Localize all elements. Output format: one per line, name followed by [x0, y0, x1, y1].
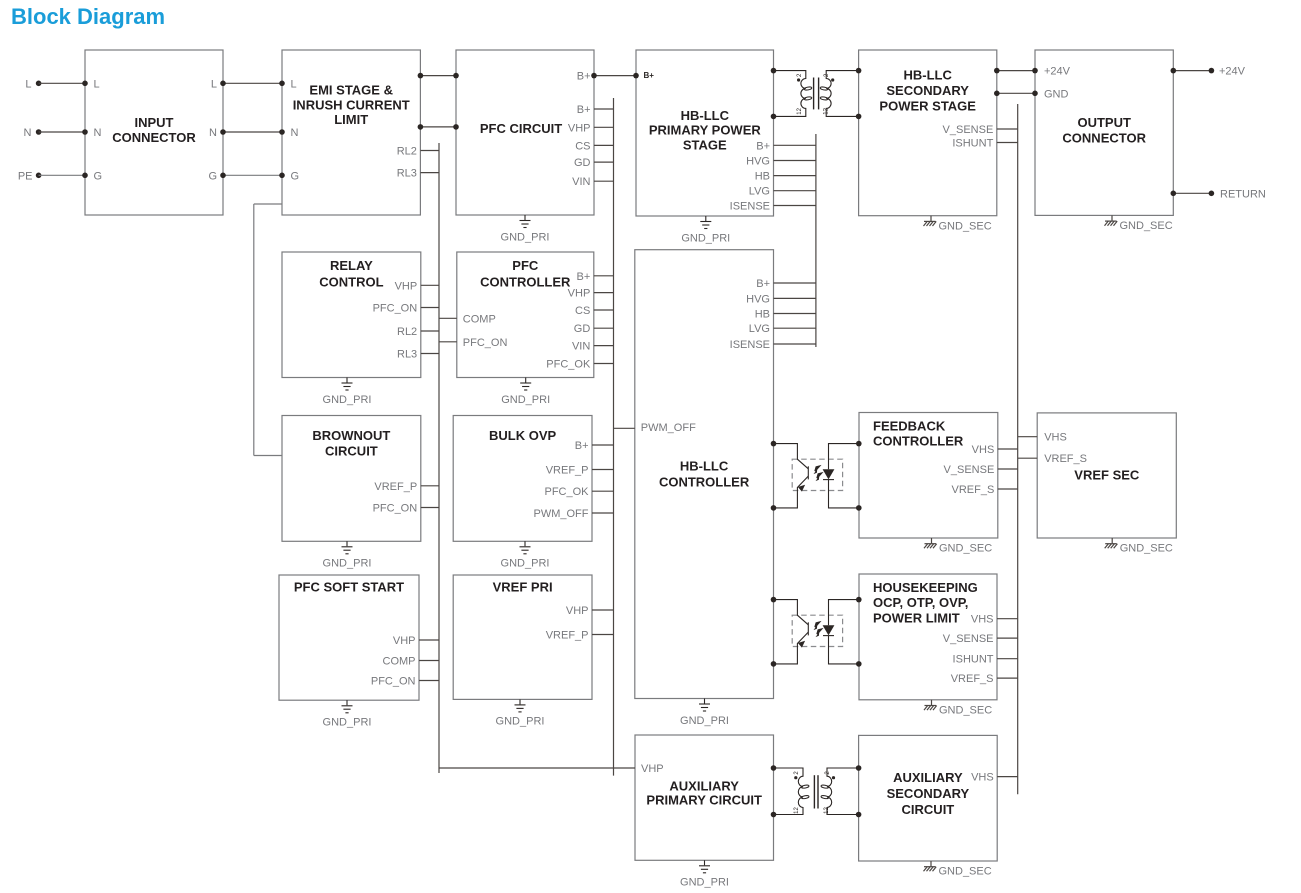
- block BULK OVP: [453, 416, 592, 542]
- svg-text:SECONDARY: SECONDARY: [887, 786, 970, 801]
- wire stub VHP (PFC SOFT START): [419, 639, 439, 641]
- svg-text:GND: GND: [1044, 88, 1069, 100]
- svg-text:GND_PRI: GND_PRI: [681, 232, 730, 244]
- wire stub VIN (PFC CONTROLLER): [594, 345, 614, 347]
- svg-text:GND_PRI: GND_PRI: [323, 717, 372, 729]
- svg-text:PFC_ON: PFC_ON: [373, 303, 418, 315]
- block BROWNOUT CIRCUIT: [282, 416, 421, 542]
- svg-text:GND_SEC: GND_SEC: [1120, 220, 1173, 232]
- svg-text:CONNECTOR: CONNECTOR: [1062, 130, 1146, 145]
- ground GND_PRI (BROWNOUT CIRCUIT): [323, 541, 372, 569]
- svg-text:VREF SEC: VREF SEC: [1074, 467, 1140, 482]
- wire stub PFC_ON (PFC SOFT START): [419, 680, 439, 682]
- svg-text:VHP: VHP: [566, 605, 589, 617]
- terminal +24V: [1171, 66, 1246, 78]
- svg-text:GND_PRI: GND_PRI: [323, 394, 372, 406]
- svg-text:CONTROL: CONTROL: [319, 275, 383, 290]
- wire L: INPUT to EMI: [82, 81, 285, 87]
- svg-text:RL2: RL2: [397, 326, 417, 338]
- wire stub COMP (PFC SOFT START): [419, 660, 439, 662]
- wire stub PFC_ON (BROWNOUT): [421, 507, 439, 509]
- svg-text:BULK OVP: BULK OVP: [489, 428, 557, 443]
- wire stub COMP (PFC CONTROLLER): [439, 317, 457, 319]
- svg-text:B+: B+: [575, 440, 589, 452]
- svg-text:COMP: COMP: [463, 313, 496, 325]
- svg-text:B+: B+: [577, 271, 591, 283]
- svg-text:GND_PRI: GND_PRI: [501, 558, 550, 570]
- wire stub ISHUNT (HOUSEKEEPING): [997, 658, 1018, 660]
- wire stub PWM_OFF (BULK OVP): [592, 512, 614, 514]
- svg-text:CONTROLLER: CONTROLLER: [873, 434, 964, 449]
- svg-text:PWM_OFF: PWM_OFF: [534, 508, 589, 520]
- svg-text:GND_SEC: GND_SEC: [939, 704, 992, 716]
- ground GND_SEC (OUTPUT CONNECTOR): [1105, 215, 1173, 232]
- svg-text:V_SENSE: V_SENSE: [943, 633, 994, 645]
- svg-text:ISENSE: ISENSE: [730, 201, 770, 213]
- transformer T1 (HB-LLC): [771, 68, 862, 119]
- ground GND_SEC (AUXILIARY SECONDARY CIRCUIT): [924, 861, 992, 878]
- svg-text:VIN: VIN: [572, 341, 590, 353]
- wire stub B+ (PFC CONTROLLER): [594, 275, 614, 277]
- svg-text:GND_SEC: GND_SEC: [1120, 543, 1173, 555]
- svg-text:HB: HB: [755, 309, 770, 321]
- svg-text:L: L: [211, 78, 217, 90]
- terminal RETURN: [1171, 188, 1266, 200]
- svg-text:PFC_OK: PFC_OK: [544, 486, 589, 498]
- ground GND_SEC (HOUSEKEEPING): [924, 700, 992, 717]
- svg-text:VREF_S: VREF_S: [952, 484, 995, 496]
- block EMI STAGE & INRUSH CURRENT LIMIT: [282, 50, 420, 215]
- block INPUT CONNECTOR: [85, 50, 223, 215]
- svg-text:CONTROLLER: CONTROLLER: [480, 275, 571, 290]
- wire stub CS (PFC CONTROLLER): [594, 309, 614, 311]
- svg-text:PRIMARY POWER: PRIMARY POWER: [649, 123, 762, 138]
- wire stub VREF_P (VREF PRI): [592, 634, 614, 636]
- wire stub RL2 (RELAY CONTROL): [421, 330, 439, 332]
- svg-text:PFC_ON: PFC_ON: [373, 503, 418, 515]
- ground GND_PRI (RELAY CONTROL): [323, 378, 372, 406]
- svg-text:POWER STAGE: POWER STAGE: [879, 99, 976, 114]
- terminal PE: [18, 170, 85, 182]
- svg-text:HB-LLC: HB-LLC: [681, 108, 730, 123]
- wire stub VHP (VREF PRI): [592, 609, 614, 611]
- svg-text:N: N: [94, 127, 102, 139]
- svg-text:CS: CS: [575, 140, 590, 152]
- wire stub RL3 (EMI): [420, 172, 439, 174]
- wire bus RL/PFC_ON vertical x439: [438, 143, 440, 773]
- svg-text:AUXILIARY: AUXILIARY: [893, 770, 963, 785]
- svg-text:GND_PRI: GND_PRI: [496, 716, 545, 728]
- svg-text:CONTROLLER: CONTROLLER: [659, 475, 750, 490]
- ground GND_PRI (AUXILIARY PRIMARY CIRCUIT): [680, 860, 729, 888]
- wire stub VHP (PFC CONTROLLER): [594, 292, 614, 294]
- wire stub VHP (PFC CIRCUIT): [594, 126, 614, 128]
- wire net to BROWNOUT CIRCUIT: [254, 204, 282, 456]
- svg-text:ISHUNT: ISHUNT: [953, 654, 994, 666]
- wire stub VHS (VREF SEC): [1018, 436, 1037, 438]
- wire stub PFC_OK (PFC CONTROLLER): [594, 363, 614, 365]
- svg-text:12: 12: [823, 107, 829, 114]
- svg-text:L: L: [94, 78, 100, 90]
- svg-text:VREF_S: VREF_S: [951, 673, 994, 685]
- svg-text:L: L: [25, 78, 31, 90]
- wire bus V_SENSE vertical x1017: [1017, 104, 1019, 794]
- optocoupler U1 (feedback): [771, 441, 862, 511]
- svg-text:GD: GD: [574, 323, 591, 335]
- svg-text:HOUSEKEEPING: HOUSEKEEPING: [873, 580, 978, 595]
- block PFC CONTROLLER: [457, 252, 594, 378]
- svg-text:GD: GD: [574, 157, 591, 169]
- svg-text:ISENSE: ISENSE: [730, 339, 770, 351]
- svg-text:EMI STAGE &: EMI STAGE &: [309, 82, 393, 97]
- wire stub HB (HB-LLC CONTROLLER): [774, 313, 816, 315]
- svg-text:VIN: VIN: [572, 176, 590, 188]
- block PFC SOFT START: [279, 575, 419, 700]
- block HOUSEKEEPING OCP OTP OVP POWER LIMIT: [859, 574, 997, 700]
- svg-text:G: G: [291, 170, 300, 182]
- svg-text:HB: HB: [755, 171, 770, 183]
- wire stub LVG (HB-LLC PRIMARY): [774, 190, 816, 192]
- svg-text:PE: PE: [18, 170, 33, 182]
- svg-text:V_SENSE: V_SENSE: [943, 124, 994, 136]
- svg-text:VHP: VHP: [393, 635, 416, 647]
- block VREF SEC: [1037, 413, 1176, 538]
- wire stub HVG (HB-LLC CONTROLLER): [774, 297, 816, 299]
- ground GND_SEC (FEEDBACK CONTROLLER): [924, 538, 992, 555]
- svg-text:PFC: PFC: [512, 258, 539, 273]
- wire stub RL2 (EMI): [420, 150, 439, 152]
- svg-text:HVG: HVG: [746, 293, 770, 305]
- wire bus PFC vertical x613: [613, 98, 615, 776]
- svg-text:GND_PRI: GND_PRI: [680, 877, 729, 889]
- svg-text:G: G: [208, 170, 217, 182]
- svg-text:LVG: LVG: [749, 323, 770, 335]
- wire bus HB-LLC vertical x816: [815, 134, 817, 347]
- svg-text:HB-LLC: HB-LLC: [680, 459, 729, 474]
- wire GND: HB-LLC SECONDARY to OUTPUT: [994, 91, 1038, 97]
- block AUXILIARY PRIMARY CIRCUIT: [635, 735, 774, 860]
- svg-text:PFC CIRCUIT: PFC CIRCUIT: [480, 121, 562, 136]
- wire stub VHS (AUX SECONDARY): [997, 776, 1018, 778]
- svg-text:SECONDARY: SECONDARY: [886, 83, 969, 98]
- svg-text:VREF_P: VREF_P: [546, 630, 589, 642]
- block RELAY CONTROL: [282, 252, 421, 378]
- svg-text:CONNECTOR: CONNECTOR: [112, 130, 196, 145]
- svg-text:GND_SEC: GND_SEC: [939, 543, 992, 555]
- svg-text:B+: B+: [756, 278, 770, 290]
- svg-text:PRIMARY CIRCUIT: PRIMARY CIRCUIT: [646, 793, 762, 808]
- terminal N: [24, 127, 85, 139]
- svg-text:FEEDBACK: FEEDBACK: [873, 419, 946, 434]
- svg-text:N: N: [24, 127, 32, 139]
- svg-text:VHP: VHP: [641, 763, 664, 775]
- wire stub V_SENSE (HB-LLC SECONDARY): [997, 128, 1018, 130]
- svg-text:B+: B+: [577, 104, 591, 116]
- svg-text:OUTPUT: OUTPUT: [1077, 115, 1131, 130]
- wire stub RL3 (RELAY CONTROL): [421, 353, 439, 355]
- wire stub VREF_P (BULK OVP): [592, 469, 614, 471]
- svg-text:CIRCUIT: CIRCUIT: [902, 802, 955, 817]
- wire stub ISENSE (HB-LLC CONTROLLER): [774, 343, 816, 345]
- block OUTPUT CONNECTOR: [1035, 50, 1173, 215]
- wire N: INPUT to EMI: [82, 129, 285, 135]
- svg-text:12: 12: [824, 807, 830, 814]
- block HB-LLC PRIMARY POWER STAGE: [636, 50, 774, 216]
- ground GND_PRI (PFC CIRCUIT): [501, 215, 550, 243]
- svg-text:RL3: RL3: [397, 349, 417, 361]
- ground GND_SEC (VREF SEC): [1105, 538, 1173, 555]
- wire stub LVG (HB-LLC CONTROLLER): [774, 327, 816, 329]
- wire G: INPUT to EMI: [82, 173, 285, 179]
- wire stub VREF_P (BROWNOUT): [421, 485, 439, 487]
- svg-text:N: N: [291, 127, 299, 139]
- svg-text:L: L: [291, 78, 297, 90]
- ground GND_PRI (BULK OVP): [501, 541, 550, 569]
- svg-text:GND_PRI: GND_PRI: [501, 231, 550, 243]
- ground GND_PRI (HB-LLC PRIMARY POWER STAGE): [681, 216, 730, 244]
- svg-text:AUXILIARY: AUXILIARY: [669, 778, 739, 793]
- block HB-LLC CONTROLLER: [635, 250, 774, 699]
- svg-text:B+: B+: [644, 71, 655, 80]
- svg-text:HB-LLC: HB-LLC: [904, 67, 953, 82]
- svg-text:V_SENSE: V_SENSE: [944, 464, 995, 476]
- wire stub ISENSE (HB-LLC PRIMARY): [774, 205, 816, 207]
- wire stub VHP (RELAY CONTROL): [421, 284, 439, 286]
- svg-text:PFC_ON: PFC_ON: [371, 676, 416, 688]
- svg-text:12: 12: [794, 807, 800, 814]
- svg-text:VHS: VHS: [1044, 432, 1067, 444]
- ground GND_PRI (HB-LLC CONTROLLER): [680, 699, 729, 727]
- svg-text:VHP: VHP: [568, 122, 591, 134]
- svg-text:STAGE: STAGE: [683, 137, 727, 152]
- svg-text:+24V: +24V: [1044, 66, 1071, 78]
- wire stub GD (PFC CIRCUIT): [594, 161, 614, 163]
- svg-text:12: 12: [797, 107, 803, 114]
- wire line1: EMI to PFC CIRCUIT: [418, 73, 459, 79]
- svg-text:HVG: HVG: [746, 156, 770, 168]
- wire B+: PFC CIRCUIT to HB-LLC PRIMARY: [591, 73, 639, 79]
- wire stub B+ (HB-LLC CONTROLLER): [774, 282, 816, 284]
- wire stub B+ (PFC CIRCUIT): [594, 108, 614, 110]
- wire stub ISHUNT (HB-LLC SECONDARY): [997, 142, 1018, 144]
- ground GND_SEC (HB-LLC SECONDARY POWER STAGE): [924, 216, 992, 233]
- wire stub VIN (PFC CIRCUIT): [594, 180, 614, 182]
- svg-text:BROWNOUT: BROWNOUT: [312, 428, 390, 443]
- svg-text:ISHUNT: ISHUNT: [952, 138, 993, 150]
- svg-text:B+: B+: [577, 71, 591, 83]
- transformer T2 (auxiliary): [771, 765, 862, 817]
- svg-text:+24V: +24V: [1219, 66, 1246, 78]
- wire stub PWM_OFF (HB-LLC CONTROLLER): [614, 427, 635, 429]
- svg-text:VREF_P: VREF_P: [374, 481, 417, 493]
- svg-text:B+: B+: [756, 140, 770, 152]
- svg-text:INRUSH CURRENT: INRUSH CURRENT: [293, 97, 410, 112]
- svg-text:POWER LIMIT: POWER LIMIT: [873, 610, 960, 625]
- svg-text:LIMIT: LIMIT: [334, 112, 368, 127]
- wire stub PFC_ON (RELAY CONTROL): [421, 307, 439, 309]
- ground GND_PRI (PFC SOFT START): [323, 700, 372, 728]
- svg-text:RL3: RL3: [397, 168, 417, 180]
- wire stub HB (HB-LLC PRIMARY): [774, 175, 816, 177]
- svg-text:VREF_P: VREF_P: [546, 465, 589, 477]
- block VREF PRI: [453, 575, 592, 699]
- svg-text:GND_SEC: GND_SEC: [939, 220, 992, 232]
- svg-text:VHS: VHS: [971, 772, 994, 784]
- wire stub B+ (BULK OVP): [592, 444, 614, 446]
- svg-text:COMP: COMP: [383, 656, 416, 668]
- wire stub HVG (HB-LLC PRIMARY): [774, 160, 816, 162]
- svg-text:Block Diagram: Block Diagram: [11, 4, 165, 29]
- block HB-LLC SECONDARY POWER STAGE: [859, 50, 997, 216]
- svg-text:VHP: VHP: [395, 280, 418, 292]
- svg-text:OCP, OTP, OVP,: OCP, OTP, OVP,: [873, 595, 968, 610]
- wire stub V_SENSE (FEEDBACK): [998, 468, 1018, 470]
- svg-text:VHP: VHP: [568, 288, 591, 300]
- ground GND_PRI (VREF PRI): [496, 699, 545, 727]
- wire stub V_SENSE (HOUSEKEEPING): [997, 637, 1018, 639]
- wire stub VHS (HOUSEKEEPING): [997, 618, 1018, 620]
- svg-text:PFC_OK: PFC_OK: [546, 359, 591, 371]
- block PFC CIRCUIT: [456, 50, 594, 215]
- block AUXILIARY SECONDARY CIRCUIT: [859, 735, 998, 861]
- wire stub PFC_ON (PFC CONTROLLER): [439, 341, 457, 343]
- svg-text:VHS: VHS: [972, 444, 995, 456]
- svg-text:LVG: LVG: [749, 186, 770, 198]
- terminal L: [25, 78, 85, 90]
- block FEEDBACK CONTROLLER: [859, 413, 998, 539]
- wire stub PFC_OK (BULK OVP): [592, 490, 614, 492]
- wire net VHP to AUXILIARY PRIMARY: [439, 767, 635, 769]
- wire line2: EMI to PFC CIRCUIT: [418, 124, 459, 130]
- svg-text:GND_PRI: GND_PRI: [323, 558, 372, 570]
- wire stub B+ (HB-LLC PRIMARY): [774, 144, 816, 146]
- svg-text:VREF PRI: VREF PRI: [493, 580, 553, 595]
- wire +24V: HB-LLC SECONDARY to OUTPUT: [994, 68, 1038, 74]
- svg-text:VREF_S: VREF_S: [1044, 453, 1087, 465]
- svg-text:VHS: VHS: [971, 614, 994, 626]
- svg-text:CIRCUIT: CIRCUIT: [325, 444, 378, 459]
- svg-text:PWM_OFF: PWM_OFF: [641, 422, 696, 434]
- svg-text:N: N: [209, 127, 217, 139]
- svg-text:PFC SOFT START: PFC SOFT START: [294, 580, 404, 595]
- wire stub VREF_S (VREF SEC): [1018, 457, 1037, 459]
- ground GND_PRI (PFC CONTROLLER): [501, 378, 550, 406]
- svg-text:RL2: RL2: [397, 146, 417, 158]
- svg-text:GND_PRI: GND_PRI: [501, 394, 550, 406]
- svg-text:CS: CS: [575, 305, 590, 317]
- svg-text:GND_PRI: GND_PRI: [680, 715, 729, 727]
- svg-text:GND_SEC: GND_SEC: [939, 866, 992, 878]
- wire stub CS (PFC CIRCUIT): [594, 144, 614, 146]
- wire stub VREF_S (FEEDBACK): [998, 488, 1018, 490]
- svg-text:G: G: [94, 170, 103, 182]
- optocoupler U2 (housekeeping): [771, 597, 862, 667]
- svg-text:RELAY: RELAY: [330, 258, 373, 273]
- wire stub VHS (FEEDBACK): [998, 448, 1018, 450]
- wire stub GD (PFC CONTROLLER): [594, 327, 614, 329]
- svg-text:PFC_ON: PFC_ON: [463, 337, 508, 349]
- wire stub VREF_S (HOUSEKEEPING): [997, 677, 1018, 679]
- svg-text:RETURN: RETURN: [1220, 188, 1266, 200]
- svg-text:INPUT: INPUT: [135, 115, 174, 130]
